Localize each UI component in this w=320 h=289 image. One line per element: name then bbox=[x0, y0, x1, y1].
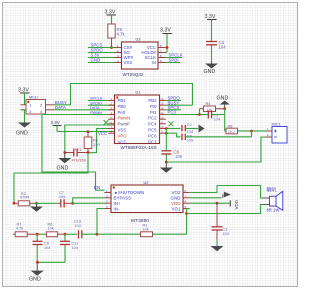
amplifier U2 bbox=[111, 181, 183, 224]
wire C7 node to BYPASS bbox=[73, 198, 105, 204]
ground up (R4 node) bbox=[217, 96, 230, 109]
svg-text:VCC: VCC bbox=[98, 131, 107, 136]
junction VDD/C3 bbox=[216, 202, 219, 205]
U1 right pin stubs and numbers bbox=[160, 101, 166, 134]
svg-text:104: 104 bbox=[214, 118, 220, 122]
resistor R8 bbox=[225, 124, 252, 134]
svg-text:PA0: PA0 bbox=[118, 110, 126, 115]
wire U3 VSS row bbox=[88, 62, 115, 64]
svg-text:104: 104 bbox=[44, 246, 50, 250]
svg-text:PI0: PI0 bbox=[150, 104, 157, 109]
svg-text:16: 16 bbox=[160, 97, 164, 101]
resistor R3 bbox=[84, 132, 100, 153]
svg-text:VSS: VSS bbox=[118, 128, 127, 133]
svg-text:GND: GND bbox=[29, 277, 41, 283]
svg-text:3.3V: 3.3V bbox=[51, 120, 60, 125]
svg-text:104: 104 bbox=[75, 224, 81, 228]
U3 left pin stubs with numbers bbox=[115, 44, 122, 63]
resistor R4 bbox=[200, 102, 225, 112]
ground arrow right (C2) bbox=[199, 125, 205, 133]
wire EN run (U1 PwmN row to U2 shutdown) bbox=[42, 115, 115, 191]
svg-text:106: 106 bbox=[175, 154, 183, 159]
power 3.3V top (above R5) bbox=[105, 10, 117, 25]
svg-text:SPDI: SPDI bbox=[169, 58, 179, 63]
wire U1 VSS to C1 node bbox=[65, 125, 115, 153]
svg-text:15: 15 bbox=[160, 102, 164, 106]
svg-text:U2: U2 bbox=[144, 181, 149, 185]
svg-text:喇叭: 喇叭 bbox=[267, 187, 277, 194]
capacitor C7 bbox=[58, 191, 73, 208]
svg-text:4.7k: 4.7k bbox=[16, 227, 23, 231]
svg-text:EN: EN bbox=[94, 185, 100, 190]
junction gnd bottom bbox=[36, 261, 39, 264]
ground arrow right (U2) bbox=[222, 195, 224, 198]
wire R7-R6 bbox=[39, 233, 47, 235]
power 3.3V above C4 bbox=[205, 14, 217, 41]
svg-text:R4: R4 bbox=[206, 102, 211, 106]
capacitor C3 bbox=[212, 203, 229, 246]
svg-text:C13: C13 bbox=[74, 220, 81, 224]
wire U3 SI bbox=[165, 62, 180, 64]
svg-text:VDD: VDD bbox=[234, 199, 239, 209]
svg-text:VPO: VPO bbox=[118, 133, 128, 138]
svg-text:10k: 10k bbox=[48, 227, 54, 231]
svg-text:PI1: PI1 bbox=[150, 110, 157, 115]
junction R2 right bbox=[35, 202, 38, 205]
svg-text:DATA: DATA bbox=[90, 106, 100, 110]
svg-text:SPDIO: SPDIO bbox=[90, 101, 102, 105]
svg-text:3.3V: 3.3V bbox=[160, 28, 171, 34]
U2 pin stubs and numbers bbox=[104, 193, 190, 209]
svg-text:PC2: PC2 bbox=[148, 116, 157, 121]
svg-text:SI: SI bbox=[152, 60, 156, 65]
junction R2 left bbox=[13, 202, 16, 205]
svg-text:GND: GND bbox=[217, 96, 229, 102]
svg-text:VCC: VCC bbox=[118, 139, 127, 144]
ground below C1 bbox=[57, 153, 72, 172]
wire U1 PC7 row to C8 (jog down) bbox=[166, 133, 181, 137]
capacitor C1 bbox=[65, 148, 88, 163]
svg-text:104: 104 bbox=[219, 45, 227, 50]
wire C6 to mic coupling bbox=[166, 137, 265, 162]
power VDD bar bbox=[230, 199, 239, 209]
voice chip U1 bbox=[115, 91, 160, 151]
junction C6 riser mid bbox=[165, 132, 168, 135]
junction IN- riser bbox=[96, 233, 99, 236]
wire R2 to C7 bbox=[34, 202, 59, 204]
svg-text:13: 13 bbox=[160, 111, 164, 115]
wire U1 PI1 bbox=[166, 109, 181, 111]
svg-text:WT25Q32: WT25Q32 bbox=[123, 72, 144, 77]
power 3.3V (blue label) near U1 VCC bbox=[51, 120, 62, 132]
junction R4 right bbox=[223, 107, 226, 110]
wire U1 PC2 to R4 node bbox=[166, 114, 200, 116]
svg-text:104: 104 bbox=[223, 232, 229, 236]
svg-text:105: 105 bbox=[187, 139, 193, 143]
wire U1 PB1 row bbox=[88, 100, 115, 102]
capacitor C13 bbox=[74, 220, 140, 239]
wire to speaker bottom bbox=[187, 205, 270, 214]
U3 right pin stubs with numbers bbox=[158, 44, 165, 63]
microphone MIC1 bbox=[266, 123, 288, 144]
svg-text:R3: R3 bbox=[93, 139, 98, 143]
capacitor C5 bbox=[200, 111, 225, 122]
wire long top net (U1 PI0 loop) bbox=[71, 84, 193, 106]
svg-text:U3: U3 bbox=[136, 38, 141, 42]
junction mic node bbox=[250, 130, 253, 133]
svg-text:PB1: PB1 bbox=[118, 98, 127, 103]
svg-text:PC7: PC7 bbox=[148, 139, 157, 144]
wire C7 to U2 IN+ bbox=[73, 202, 105, 204]
wire BUSY (MCU pin2 to riser) bbox=[53, 104, 71, 106]
wire U3 SCLK bbox=[165, 57, 182, 59]
wire VO2 to speaker top bbox=[190, 186, 270, 199]
svg-text:GND: GND bbox=[171, 196, 182, 201]
wire R6-C13 bbox=[65, 233, 77, 235]
svg-text:SHUTDOWN: SHUTDOWN bbox=[118, 190, 145, 195]
svg-text:U1: U1 bbox=[136, 91, 141, 95]
ground below R2 bbox=[30, 203, 43, 211]
svg-text:IN-: IN- bbox=[114, 206, 121, 211]
svg-text:47U/16V: 47U/16V bbox=[72, 159, 87, 163]
svg-text:R8: R8 bbox=[228, 124, 233, 128]
wire audio from R3 node to R2 bbox=[14, 153, 88, 204]
junction at U3 VCC bbox=[166, 46, 169, 49]
junction R6/C11 bbox=[64, 233, 67, 236]
svg-text:11: 11 bbox=[160, 120, 163, 124]
ground below C4 bbox=[204, 62, 219, 76]
wire U3 WP row bbox=[88, 57, 115, 59]
U1 left pin stubs and numbers bbox=[108, 101, 114, 134]
junction C6 riser top bbox=[165, 127, 168, 130]
no-connect X on U1 PwmP bbox=[104, 120, 109, 125]
wire U1 VPO to R3 node bbox=[88, 129, 115, 153]
svg-text:VO1: VO1 bbox=[171, 206, 181, 211]
junction R7/C9 bbox=[36, 233, 39, 236]
U1 left net labels bbox=[90, 97, 103, 115]
wire U3 CS row bbox=[88, 47, 115, 49]
svg-text:PC3: PC3 bbox=[168, 110, 177, 115]
wire R4 left corner down bbox=[199, 109, 201, 115]
ground bottom left bbox=[29, 262, 44, 282]
wire VO1 feedback bbox=[187, 209, 190, 235]
svg-text:33R: 33R bbox=[93, 143, 100, 147]
svg-text:MIC1: MIC1 bbox=[272, 123, 281, 127]
svg-text:14: 14 bbox=[160, 106, 164, 110]
svg-text:4.7k: 4.7k bbox=[117, 32, 126, 37]
svg-text:GND: GND bbox=[204, 69, 216, 75]
speaker bbox=[262, 187, 283, 213]
svg-text:DATA: DATA bbox=[55, 105, 66, 110]
svg-text:BYPASS: BYPASS bbox=[114, 196, 132, 201]
svg-text:10k: 10k bbox=[143, 228, 149, 232]
junction R3 top bbox=[87, 130, 90, 133]
svg-text:470R: 470R bbox=[20, 196, 29, 200]
svg-text:PC5: PC5 bbox=[148, 128, 157, 133]
resistor R1 bbox=[141, 224, 187, 237]
capacitor C11 bbox=[60, 234, 78, 262]
wire C9-C11 bottom bbox=[38, 261, 66, 263]
connector MCU bbox=[21, 95, 54, 114]
wire MCU pin3 to gnd bbox=[24, 110, 26, 123]
wire R4 node down to R8 bbox=[224, 109, 226, 131]
svg-text:GND: GND bbox=[91, 58, 101, 63]
svg-text:+C1: +C1 bbox=[75, 148, 82, 152]
svg-text:PC4: PC4 bbox=[148, 122, 157, 127]
junction C6 bottom bbox=[165, 161, 168, 164]
capacitor C4 bbox=[206, 40, 226, 62]
capacitor C6 bbox=[161, 129, 182, 163]
svg-text:8R 1W: 8R 1W bbox=[267, 208, 280, 213]
junction R4 left bbox=[198, 113, 201, 116]
svg-text:PC6: PC6 bbox=[148, 133, 157, 138]
ground below MCU bbox=[16, 123, 31, 137]
capacitor C2 bbox=[182, 123, 198, 134]
wire U1 PB2 bbox=[166, 100, 181, 102]
svg-text:VO2: VO2 bbox=[171, 190, 181, 195]
svg-text:PB2: PB2 bbox=[148, 98, 157, 103]
flash chip U3 bbox=[122, 38, 159, 78]
svg-text:12: 12 bbox=[160, 116, 164, 120]
svg-text:104: 104 bbox=[187, 130, 193, 134]
junction C1 right / R3 bottom bbox=[87, 151, 90, 154]
wire U1 PI0 bbox=[166, 104, 193, 106]
svg-text:MCU: MCU bbox=[29, 95, 38, 99]
wire U2 GND pin bbox=[190, 197, 222, 199]
capacitor C9 bbox=[33, 234, 51, 262]
svg-text:GND: GND bbox=[16, 131, 28, 137]
power 3.3V at U3 VCC bbox=[160, 28, 172, 53]
svg-text:106: 106 bbox=[59, 195, 65, 199]
junction VO1 node bbox=[185, 212, 188, 215]
svg-text:PB0: PB0 bbox=[118, 104, 127, 109]
ground below C3 bbox=[211, 246, 224, 251]
wire DATA (MCU pin4 to U1) bbox=[53, 109, 115, 111]
svg-text:PwmP: PwmP bbox=[118, 122, 131, 127]
no-connect X on U1 PC5 bbox=[169, 121, 174, 126]
resistor R6 bbox=[46, 223, 65, 237]
wire VDD rail bbox=[190, 202, 231, 204]
ground below C6 bbox=[160, 162, 173, 173]
svg-text:10: 10 bbox=[160, 125, 164, 129]
svg-text:IN+: IN+ bbox=[114, 201, 122, 206]
power 3.3V above MCU bbox=[18, 88, 30, 105]
junction C1 left bbox=[63, 151, 66, 154]
capacitor C8 bbox=[182, 134, 252, 143]
svg-text:GND: GND bbox=[57, 166, 69, 172]
junction at R5/CS bbox=[110, 46, 113, 49]
wire IN- riser bbox=[97, 209, 104, 235]
wire U1 PC6 row to C2 bbox=[166, 128, 181, 130]
wire U3 SO row bbox=[88, 52, 115, 54]
wire VCC rail to U1 bbox=[57, 131, 115, 133]
wire mic node riser bbox=[251, 131, 253, 137]
wire U1 PB0 row bbox=[88, 104, 115, 106]
resistor R5 bbox=[108, 24, 126, 48]
wire to MIC pin1 bbox=[252, 130, 266, 132]
svg-text:2K2: 2K2 bbox=[228, 130, 235, 134]
junction C7 right bbox=[71, 202, 74, 205]
svg-text:PWMN: PWMN bbox=[90, 111, 102, 115]
svg-text:VDD: VDD bbox=[171, 201, 181, 206]
svg-text:104: 104 bbox=[72, 246, 78, 250]
svg-text:WT588F02A-16S: WT588F02A-16S bbox=[121, 145, 157, 150]
bottom rail: resistor R7 bbox=[13, 223, 37, 237]
svg-text:VSS: VSS bbox=[124, 60, 133, 65]
svg-text:PwmN: PwmN bbox=[118, 116, 131, 121]
resistor R2 bbox=[14, 192, 34, 206]
svg-text:C2: C2 bbox=[187, 123, 192, 127]
svg-text:C3: C3 bbox=[223, 227, 228, 231]
